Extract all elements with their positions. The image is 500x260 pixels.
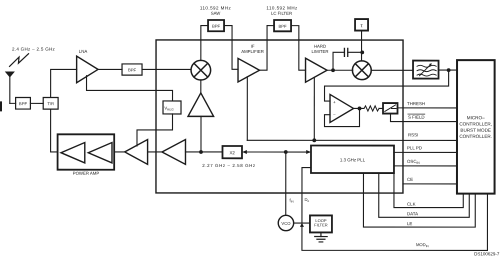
- wire capacitor to tau node: [348, 51, 363, 53]
- wire Do from PLL to loop filter: [302, 168, 311, 223]
- adjustable post-detection filter: [413, 61, 439, 79]
- label 110.592 MHz LC FILTER: [266, 6, 298, 16]
- wire MOD IN net: [302, 194, 488, 251]
- op-amp hard limiter: [306, 44, 329, 83]
- svg-text:T/R: T/R: [47, 101, 54, 106]
- resistor R1: [364, 106, 379, 111]
- wire VCO feed line X2 to PLL with arrows: [243, 151, 309, 153]
- svg-text:PLL PD: PLL PD: [407, 145, 422, 150]
- PLL box 1.3 GHz PLL: [311, 146, 394, 174]
- wire CLK net: [394, 173, 463, 208]
- wire IF amp output up to LC filter: [260, 26, 275, 71]
- microcontroller box: [457, 60, 495, 194]
- wire X2 to LO node: [185, 151, 222, 153]
- LC filter BPF: [274, 20, 291, 31]
- svg-text:CONTROLLER,: CONTROLLER,: [459, 122, 492, 127]
- wire DATA net: [379, 173, 470, 217]
- wire LNA output to BPF: [98, 68, 122, 70]
- op-amp IF amplifier: [238, 44, 264, 82]
- wire buffer B1 to power amp: [114, 151, 124, 153]
- label 110.592 MHz SAW: [200, 5, 232, 15]
- svg-text:DATA: DATA: [407, 211, 418, 216]
- wire mixer1 output up to SAW filter: [201, 26, 208, 61]
- svg-text:1.3 GHz PLL: 1.3 GHz PLL: [340, 157, 366, 162]
- svg-text:X2: X2: [229, 150, 235, 155]
- svg-text:FILTER: FILTER: [314, 222, 328, 227]
- junction dot RSSI: [312, 138, 316, 142]
- svg-text:RSSI: RSSI: [408, 132, 418, 137]
- T/R switch: [43, 97, 58, 109]
- scan artifact left edge: [0, 101, 2, 111]
- wire fIN down to VCO: [285, 152, 287, 215]
- wire LNA bias from VREG (staircase): [87, 76, 173, 101]
- ground: [315, 232, 327, 242]
- SAW filter BPF: [208, 20, 224, 31]
- svg-text:BURST MODE: BURST MODE: [460, 128, 491, 133]
- junction dot fIN node: [284, 150, 288, 154]
- svg-text:110.592 MHz: 110.592 MHz: [266, 6, 298, 11]
- svg-text:110.592 MHz: 110.592 MHz: [200, 5, 232, 10]
- svg-text:LNA: LNA: [79, 49, 88, 54]
- loop filter box: [310, 215, 332, 232]
- svg-text:BPF: BPF: [278, 24, 287, 29]
- svg-text:THRESH: THRESH: [407, 101, 425, 106]
- wire LO node up to LO buffer: [200, 116, 202, 152]
- oscillator VCO: [278, 215, 293, 230]
- amplifier TX buffer B2: [162, 140, 186, 165]
- svg-text:HARD: HARD: [314, 44, 326, 49]
- wire SAW filter down to IF amplifier: [224, 26, 238, 70]
- antenna band-pass filter BPF: [16, 97, 31, 109]
- wire T/R down to power amp output: [51, 109, 58, 152]
- wire tau box down to mixer2: [361, 31, 363, 61]
- svg-text:2.4 GHz – 2.5 GHz: 2.4 GHz – 2.5 GHz: [12, 47, 56, 52]
- svg-text:POWER AMP: POWER AMP: [73, 171, 100, 176]
- threshold switch box: [383, 103, 398, 114]
- mixer M1 (RX mixer): [191, 60, 211, 80]
- label S FIELD (overlined): [408, 115, 425, 120]
- wire BPF to T/R: [30, 102, 43, 104]
- wire THRESH net: [398, 107, 458, 109]
- arrowhead into PLL: [306, 150, 311, 154]
- wire limiter RSSI drop: [313, 77, 315, 140]
- svg-text:IF: IF: [251, 44, 255, 49]
- svg-text:LC FILTER: LC FILTER: [271, 11, 292, 16]
- svg-text:S FIELD: S FIELD: [408, 115, 425, 120]
- wire LO buffer to mixer1: [200, 80, 202, 93]
- svg-text:2.27 GHz – 2.58 GHz: 2.27 GHz – 2.58 GHz: [202, 163, 255, 168]
- RF wave squiggle: [10, 54, 29, 67]
- wire comparator feedback to inverting input: [325, 108, 360, 126]
- wire resistor to threshold switch: [379, 107, 383, 109]
- svg-text:VCO: VCO: [281, 221, 291, 226]
- arrowhead modulation into tune line: [300, 223, 304, 227]
- svg-text:DS100629-7: DS100629-7: [474, 251, 500, 256]
- junction dot LO node: [199, 150, 203, 154]
- wire T/R up to LNA input: [51, 69, 77, 97]
- chip boundary box: [156, 40, 403, 193]
- wire filter output to microcontroller: [439, 69, 458, 71]
- wire buffer B2 to buffer B1: [148, 151, 162, 153]
- junction dot comparator output: [358, 107, 362, 111]
- power amplifier box: [58, 134, 115, 175]
- wire VREG down to TX buffer: [137, 114, 173, 146]
- svg-text:LIMITER: LIMITER: [312, 49, 329, 54]
- junction dot demod output: [447, 68, 451, 72]
- wire riser to phase-shift capacitor: [333, 52, 344, 70]
- wire RSSI net: [247, 139, 457, 141]
- svg-text:LE: LE: [407, 221, 412, 226]
- svg-text:−: −: [333, 112, 336, 117]
- LNA: [77, 49, 98, 83]
- wire antenna to BPF: [10, 102, 16, 104]
- svg-text:MICRO–: MICRO–: [467, 115, 485, 120]
- svg-text:+: +: [333, 100, 336, 105]
- tank tau box: [355, 19, 368, 31]
- wire CE net: [403, 183, 457, 185]
- wire S FIELD net: [391, 114, 458, 122]
- svg-text:BPF: BPF: [19, 101, 28, 106]
- regulator VREG: [163, 101, 181, 114]
- junction dot tau node: [360, 50, 364, 54]
- wire LC filter down to hard limiter: [291, 26, 306, 71]
- IF band-pass filter BPF (RX): [122, 64, 142, 75]
- capacitor C1: [344, 48, 347, 56]
- svg-text:CONTROLLER.: CONTROLLER.: [459, 134, 492, 139]
- wire VCO to loop filter: [294, 222, 310, 224]
- wire IF amp RSSI drop: [246, 77, 248, 140]
- op-amp comparator (data slicer): [330, 94, 354, 122]
- svg-text:CLK: CLK: [407, 202, 416, 207]
- svg-text:AMPLIFIER: AMPLIFIER: [241, 49, 264, 54]
- wire BPF to mixer1: [142, 68, 191, 70]
- amplifier LO buffer: [188, 93, 214, 116]
- amplifier TX buffer B1: [125, 140, 148, 165]
- multiplier X2 box: [222, 146, 242, 158]
- junction dot limiter output: [331, 68, 335, 72]
- svg-text:CE: CE: [407, 177, 413, 182]
- svg-text:BPF: BPF: [212, 24, 221, 29]
- antenna: [6, 72, 14, 104]
- arrowhead into X2: [242, 150, 247, 154]
- wire limiter output to mixer2: [327, 69, 353, 71]
- wire demod output down and back to comparator input: [325, 70, 449, 101]
- wire mixer2 output to external filter: [371, 69, 413, 71]
- wire comparator output to resistor: [354, 107, 365, 109]
- svg-text:SAW: SAW: [211, 11, 222, 16]
- wire PLL PD net: [394, 151, 457, 153]
- wire OSC IN net: [394, 165, 457, 167]
- wire LE net: [363, 173, 475, 227]
- mixer M2 (quadrature demodulator): [352, 61, 371, 80]
- svg-text:BPF: BPF: [128, 67, 137, 72]
